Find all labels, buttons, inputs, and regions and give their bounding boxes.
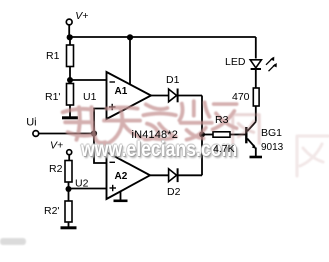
svg-text:R2': R2': [44, 205, 59, 217]
svg-text:R1': R1': [45, 91, 60, 103]
svg-text:iN4148*2: iN4148*2: [132, 129, 178, 141]
svg-text:470: 470: [232, 91, 250, 103]
svg-text:A1: A1: [115, 86, 128, 97]
svg-text:R2: R2: [49, 163, 63, 175]
svg-text:D2: D2: [167, 186, 181, 198]
svg-text:A2: A2: [115, 171, 128, 182]
svg-text:9013: 9013: [261, 142, 284, 153]
svg-text:Ui: Ui: [26, 117, 36, 129]
svg-text:R1: R1: [46, 50, 60, 62]
svg-text:4.7K: 4.7K: [213, 143, 235, 155]
svg-text:V+: V+: [50, 140, 63, 152]
svg-text:U1: U1: [83, 91, 97, 103]
svg-text:R3: R3: [215, 114, 229, 126]
svg-text:U2: U2: [75, 178, 89, 190]
svg-text:D1: D1: [166, 74, 180, 86]
svg-text:V+: V+: [75, 10, 88, 22]
svg-text:LED: LED: [225, 56, 246, 68]
svg-text:BG1: BG1: [261, 127, 282, 139]
